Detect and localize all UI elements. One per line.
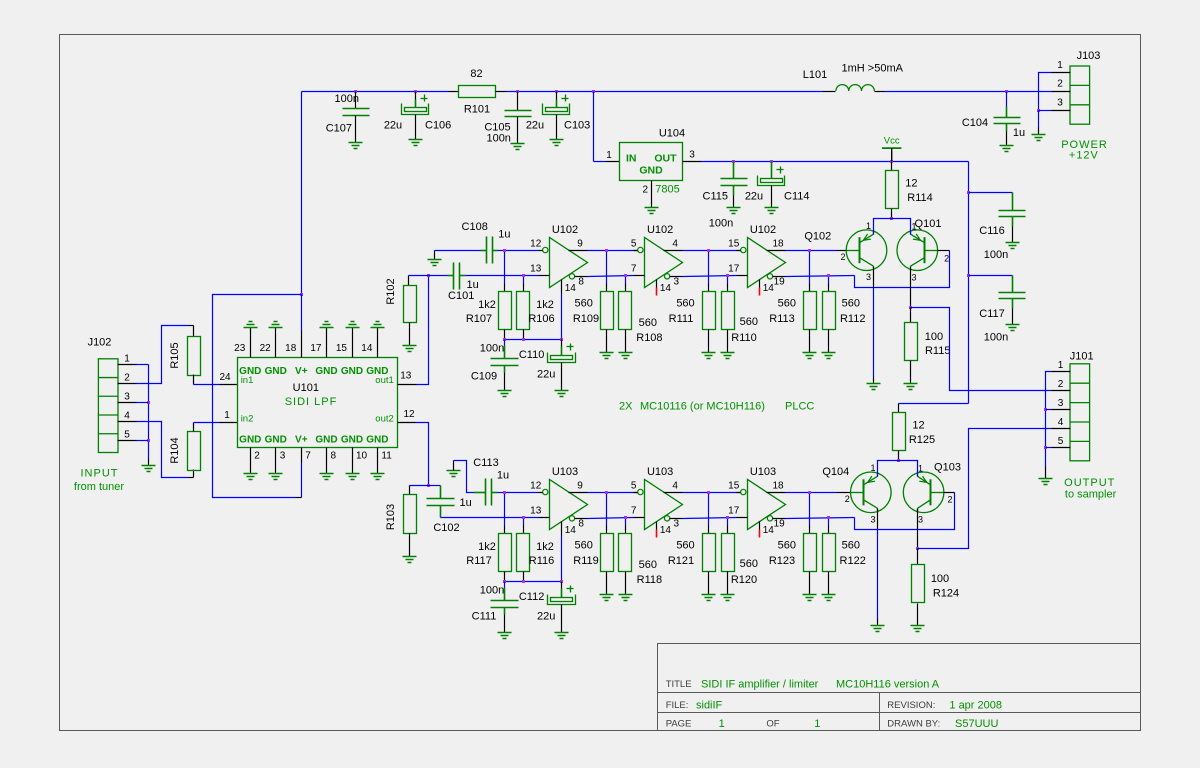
wire	[302, 91, 449, 93]
svg-text:C107: C107	[326, 123, 352, 135]
svg-text:14: 14	[565, 525, 577, 536]
wire	[504, 608, 506, 615]
wire	[625, 526, 627, 534]
svg-text:560: 560	[575, 298, 593, 310]
svg-text:R116: R116	[529, 555, 554, 567]
svg-text:4: 4	[672, 481, 678, 492]
svg-text:SIDI LPF: SIDI LPF	[285, 396, 338, 408]
svg-text:R109: R109	[573, 313, 599, 325]
wire	[561, 582, 563, 589]
capacitor C116	[999, 211, 1026, 217]
wire	[1046, 447, 1052, 449]
ground	[498, 633, 512, 639]
wire	[891, 209, 893, 219]
junction	[414, 90, 417, 93]
capacitor C104	[994, 118, 1021, 124]
junction	[707, 249, 710, 252]
svg-text:U103: U103	[552, 466, 578, 478]
svg-text:17: 17	[310, 343, 322, 354]
wire	[737, 250, 741, 252]
junction	[827, 274, 830, 277]
svg-text:3: 3	[689, 150, 695, 161]
wire	[1006, 107, 1008, 118]
junction	[516, 90, 519, 93]
svg-text:R101: R101	[464, 104, 490, 116]
wire (R120 feed)	[727, 518, 729, 526]
svg-text:5: 5	[631, 239, 637, 250]
svg-text:1: 1	[1057, 60, 1063, 71]
svg-text:3: 3	[911, 272, 916, 282]
junction	[503, 491, 506, 494]
junction	[890, 160, 893, 163]
wire	[504, 572, 506, 582]
svg-text:1: 1	[606, 150, 612, 161]
wire (pin 18)	[767, 492, 786, 494]
svg-text:GND: GND	[315, 366, 337, 377]
power symbol Vcc	[882, 136, 901, 162]
unconnected pin 14 marker (U102)	[656, 288, 658, 296]
wire	[917, 549, 919, 565]
ground	[904, 384, 918, 390]
ground	[803, 595, 817, 601]
wire (J102 pin 4)	[118, 421, 137, 423]
svg-text:R119: R119	[573, 555, 598, 567]
wire	[137, 440, 149, 442]
wire (pin 3)	[670, 518, 683, 520]
svg-text:14: 14	[361, 343, 373, 354]
resistor R122	[823, 534, 836, 572]
svg-text:1: 1	[870, 463, 875, 473]
svg-text:82: 82	[470, 68, 482, 80]
junction	[522, 516, 525, 519]
svg-text:SIDI IF amplifier / limiter: SIDI IF amplifier / limiter	[701, 679, 819, 691]
svg-text:GND: GND	[639, 165, 663, 177]
wire	[194, 422, 220, 424]
resistor R119	[601, 534, 614, 572]
junction	[624, 516, 627, 519]
junction	[827, 516, 830, 519]
wire	[504, 526, 506, 534]
wire (pin 3)	[670, 276, 683, 278]
wire	[194, 384, 220, 386]
wire (R107 feed)	[504, 251, 506, 284]
IC U101 body	[238, 358, 398, 448]
resistor R101	[459, 86, 496, 98]
svg-text:C110: C110	[519, 349, 544, 361]
input bubble pin 15 (U102)	[741, 247, 746, 252]
wire	[556, 92, 558, 100]
svg-text:MC10H116 version A: MC10H116 version A	[836, 679, 940, 691]
svg-text:14: 14	[763, 283, 775, 294]
svg-text:22u: 22u	[384, 120, 402, 132]
wire (pin 4)	[664, 250, 683, 252]
ground	[142, 466, 156, 472]
svg-text:3: 3	[866, 272, 871, 282]
wire	[523, 572, 525, 582]
junction	[522, 338, 525, 341]
svg-text:GND: GND	[239, 434, 261, 445]
ground	[371, 474, 385, 480]
resistor R107	[499, 292, 512, 330]
wire	[1012, 276, 1014, 293]
capacitor C107	[343, 109, 370, 116]
wire	[449, 91, 459, 93]
svg-text:560: 560	[676, 539, 694, 551]
svg-text:7805: 7805	[655, 184, 679, 196]
svg-text:sidiIF: sidiIF	[696, 699, 723, 711]
svg-text:R106: R106	[528, 313, 554, 325]
svg-text:8: 8	[578, 519, 584, 530]
junction	[967, 274, 970, 277]
svg-text:18: 18	[285, 343, 297, 354]
amplifier U102 (stage 3)	[748, 238, 786, 288]
svg-text:100n: 100n	[984, 249, 1008, 261]
wire (U101 pin 7)	[301, 448, 303, 463]
wire	[593, 92, 595, 162]
wire	[466, 275, 539, 277]
wire (pin 14)	[656, 522, 658, 530]
wire (J103 pin 1)	[1052, 72, 1071, 74]
resistor R120	[722, 534, 735, 572]
svg-text:560: 560	[740, 316, 758, 328]
svg-text:1: 1	[719, 718, 725, 730]
wire	[415, 100, 417, 108]
ground	[1039, 479, 1053, 485]
svg-text:3: 3	[280, 451, 286, 462]
wire (out1 net)	[417, 276, 429, 385]
junction	[503, 580, 506, 583]
amplifier U103 (stage 2)	[645, 480, 683, 530]
wire	[504, 346, 506, 359]
wire (rowA)	[786, 492, 837, 494]
wire (rowB)	[683, 276, 737, 277]
ground	[727, 208, 741, 214]
ground	[765, 208, 779, 214]
svg-text:J102: J102	[88, 337, 112, 349]
svg-text:13: 13	[530, 506, 542, 517]
wire	[877, 619, 879, 626]
wire (collectors)	[874, 219, 911, 235]
svg-text:15: 15	[336, 343, 348, 354]
svg-text:13: 13	[530, 264, 542, 275]
ground	[822, 353, 836, 359]
ground	[320, 474, 334, 480]
ground	[1000, 146, 1014, 152]
svg-text:V+: V+	[295, 366, 308, 377]
ground	[1006, 325, 1020, 331]
output bubble pin 3 (U103)	[664, 516, 669, 521]
svg-text:14: 14	[660, 283, 672, 294]
wire	[504, 366, 506, 373]
svg-text:OUTPUT: OUTPUT	[1064, 477, 1115, 489]
svg-text:10: 10	[356, 451, 368, 462]
svg-text:IN: IN	[626, 153, 637, 165]
wire	[708, 330, 710, 353]
wire	[885, 91, 1052, 93]
wire	[561, 363, 563, 391]
output bubble pin 3 (U102)	[664, 274, 669, 279]
wire	[733, 196, 735, 208]
wire	[1012, 217, 1014, 227]
svg-text:560: 560	[740, 558, 758, 570]
junction	[967, 191, 970, 194]
junction	[503, 249, 506, 252]
svg-text:U104: U104	[659, 128, 685, 140]
wire	[561, 340, 563, 347]
wire	[727, 284, 729, 292]
svg-text:1: 1	[866, 221, 871, 231]
ground	[349, 143, 363, 149]
svg-text:C108: C108	[462, 221, 488, 233]
wire (R119 feed)	[606, 493, 608, 526]
wire (J101 pin 5)	[1052, 447, 1071, 449]
ground	[555, 633, 569, 639]
wire (R109 feed)	[606, 251, 608, 284]
wire (pin 9)	[569, 250, 588, 252]
wire	[193, 375, 195, 385]
wire (pin 14 net)	[561, 294, 563, 340]
resistor R117	[499, 534, 512, 572]
wire	[504, 340, 506, 346]
svg-text:GND: GND	[265, 434, 287, 445]
wire	[556, 100, 558, 108]
junction	[890, 217, 893, 220]
wire (R118 feed)	[625, 518, 627, 526]
svg-text:12: 12	[905, 178, 917, 190]
ground	[911, 626, 925, 632]
wire	[409, 486, 411, 495]
ground	[1032, 135, 1046, 141]
junction	[555, 90, 558, 93]
svg-text:U102: U102	[552, 224, 578, 236]
ground	[721, 353, 735, 359]
wire	[193, 423, 195, 432]
junction	[605, 491, 608, 494]
wire (R112 feed)	[828, 276, 830, 284]
svg-text:R118: R118	[637, 574, 662, 586]
ground (inverted)	[346, 322, 360, 328]
wire (pin 17)	[737, 275, 748, 277]
wire (R110 feed)	[727, 276, 729, 284]
wire (collectors)	[878, 461, 918, 477]
svg-text:100: 100	[931, 573, 949, 585]
svg-text:OUT: OUT	[654, 153, 677, 165]
wire	[517, 117, 519, 144]
junction	[300, 293, 303, 296]
svg-text:2: 2	[124, 372, 130, 383]
junction	[808, 249, 811, 252]
wire (J103 pin 2)	[1052, 91, 1071, 93]
connector J102	[98, 359, 118, 453]
connector J101	[1070, 364, 1090, 461]
wire	[727, 572, 729, 595]
svg-text:J101: J101	[1070, 351, 1094, 363]
svg-text:560: 560	[639, 317, 657, 329]
svg-text:560: 560	[575, 540, 593, 552]
ground	[447, 471, 461, 477]
svg-text:100n: 100n	[480, 585, 504, 597]
wire	[504, 373, 506, 391]
svg-text:560: 560	[676, 297, 694, 309]
output bubble pin 8 (U102)	[569, 274, 574, 279]
svg-text:R123: R123	[769, 555, 795, 567]
wire	[1006, 92, 1008, 107]
wire	[498, 492, 505, 494]
wire (Q102 base)	[837, 250, 847, 252]
svg-text:560: 560	[639, 559, 657, 571]
svg-text:24: 24	[219, 372, 231, 383]
svg-text:R112: R112	[840, 313, 865, 325]
svg-text:2: 2	[1057, 79, 1063, 90]
wire	[504, 582, 506, 588]
svg-text:in2: in2	[241, 414, 254, 425]
ground	[871, 626, 885, 632]
svg-text:R120: R120	[731, 574, 757, 586]
ground	[600, 595, 614, 601]
svg-text:8: 8	[578, 277, 584, 288]
svg-text:C102: C102	[433, 522, 459, 534]
svg-text:1u: 1u	[498, 228, 510, 240]
svg-text:GND: GND	[341, 434, 363, 445]
wire (U101 pin 8)	[326, 448, 328, 474]
wire	[625, 330, 627, 353]
svg-text:18: 18	[772, 239, 784, 250]
wire	[1012, 309, 1014, 325]
wire	[507, 91, 823, 93]
wire	[891, 162, 893, 171]
wire (rowB to Q103 base)	[855, 493, 955, 530]
wire	[504, 588, 506, 601]
svg-text:R122: R122	[840, 555, 866, 567]
capacitor C117	[999, 293, 1026, 299]
svg-text:U102: U102	[647, 224, 673, 236]
unconnected pin 14 marker (U103)	[656, 530, 658, 538]
wire	[1045, 467, 1047, 479]
ground	[511, 144, 525, 150]
svg-text:14: 14	[763, 525, 775, 536]
svg-text:from tuner: from tuner	[74, 481, 124, 493]
svg-text:C114: C114	[784, 191, 809, 203]
wire (R108 feed)	[625, 276, 627, 284]
svg-text:3: 3	[674, 519, 680, 530]
wire	[1038, 128, 1040, 135]
wire (pin 15)	[737, 250, 741, 252]
wire (rowA)	[683, 250, 737, 252]
wire (J103 pin 3)	[1052, 110, 1071, 112]
wire (rowB)	[588, 276, 634, 277]
resistor R103	[404, 495, 417, 534]
capacitor C113	[486, 479, 492, 506]
wire	[1006, 132, 1008, 146]
wire (J101 pin 3)	[1052, 409, 1071, 411]
wire	[409, 275, 429, 277]
junction	[1044, 408, 1047, 411]
svg-text:2X: 2X	[619, 400, 633, 412]
wire (R113 feed)	[809, 251, 811, 284]
wire (pin 13)	[539, 275, 550, 277]
svg-text:R117: R117	[466, 555, 491, 567]
transistor Q101	[897, 230, 938, 271]
wire (+5V feed)	[968, 162, 970, 404]
svg-text:14: 14	[565, 283, 577, 294]
wire	[561, 589, 563, 598]
svg-text:9: 9	[577, 481, 583, 492]
wire	[737, 492, 741, 494]
wire	[498, 250, 505, 252]
wire (U101 pin 23)	[250, 328, 252, 358]
wire	[634, 492, 638, 494]
svg-text:3: 3	[674, 277, 680, 288]
junction	[503, 338, 506, 341]
svg-text:560: 560	[778, 539, 796, 551]
wire	[606, 572, 608, 595]
junction	[916, 547, 919, 550]
svg-text:1k2: 1k2	[536, 299, 554, 311]
svg-text:C111: C111	[472, 611, 497, 623]
ground (inverted)	[244, 322, 258, 328]
ground	[702, 353, 716, 359]
ground	[619, 353, 633, 359]
wire (rowA)	[505, 492, 539, 494]
wire	[409, 534, 411, 557]
wire (Q103 emitter)	[917, 509, 919, 549]
junction	[605, 249, 608, 252]
svg-text:R108: R108	[636, 332, 662, 344]
svg-text:19: 19	[774, 277, 786, 288]
svg-text:U103: U103	[647, 466, 673, 478]
wire	[1012, 193, 1014, 211]
capacitor C106	[402, 95, 429, 115]
wire (pin 14)	[656, 280, 658, 288]
capacitor C102	[427, 499, 455, 506]
wire	[969, 192, 1013, 194]
resistor R113	[804, 292, 817, 330]
wire (Q101 emitter)	[910, 267, 912, 308]
wire (rowA)	[683, 492, 737, 494]
svg-text:R113: R113	[769, 313, 794, 325]
regulator U104	[620, 143, 683, 181]
title block frame	[658, 644, 1141, 731]
wire	[517, 92, 519, 111]
svg-text:C112: C112	[519, 591, 544, 603]
junction	[909, 306, 912, 309]
svg-text:3: 3	[1057, 98, 1063, 109]
wire	[504, 615, 506, 633]
svg-text:U102: U102	[750, 224, 776, 236]
wire (R122 feed)	[828, 518, 830, 526]
wire (pin14 rail)	[505, 339, 562, 341]
capacitor C111	[491, 601, 519, 608]
svg-text:560: 560	[842, 539, 860, 551]
svg-text:2: 2	[642, 185, 648, 196]
wire	[434, 251, 436, 254]
svg-text:PLCC: PLCC	[785, 400, 814, 412]
capacitor C112	[548, 586, 576, 605]
svg-text:MC10116 (or MC10H116): MC10116 (or MC10H116)	[640, 400, 765, 412]
wire (rowB)	[441, 517, 539, 519]
svg-text:2: 2	[944, 253, 949, 263]
wire (U101 pin 17)	[326, 328, 328, 358]
wire (Q104 base)	[837, 492, 851, 494]
wire (Q102 emitter)	[873, 267, 875, 288]
wire	[1039, 110, 1052, 112]
svg-text:DRAWN BY:: DRAWN BY:	[887, 719, 940, 730]
wire (rowB)	[588, 518, 634, 519]
input bubble pin 12 (U103)	[543, 489, 548, 494]
svg-text:R107: R107	[466, 313, 492, 325]
wire (pin 19)	[773, 276, 786, 278]
wire (+5V to R125)	[899, 403, 969, 405]
